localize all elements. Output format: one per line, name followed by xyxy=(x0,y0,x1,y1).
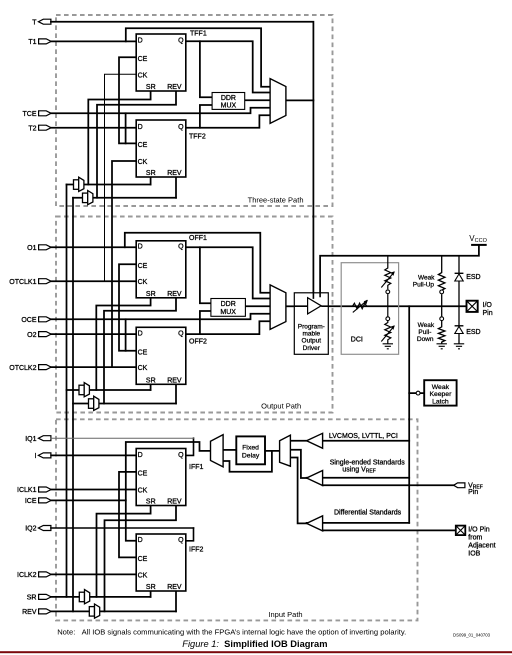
svg-text:Three-state Path: Three-state Path xyxy=(248,195,304,204)
pad ICLK1 xyxy=(39,487,52,492)
wire pad net vertical to input buffers xyxy=(408,306,410,523)
wire TCE bus to TFF1 CE and TFF2 CE xyxy=(119,57,136,143)
svg-text:Pull-: Pull- xyxy=(418,329,431,336)
wire OFF1 SR xyxy=(96,298,150,390)
wire driver output to I/O pin xyxy=(328,305,466,307)
wire OFF2 REV xyxy=(175,384,177,403)
svg-text:Q: Q xyxy=(178,124,184,131)
VREF pad xyxy=(454,483,465,488)
wire VREF buffer output to input mux2 xyxy=(290,450,306,478)
wire REV distribution output path xyxy=(73,403,176,405)
svg-text:D: D xyxy=(138,537,143,544)
ground DCI xyxy=(383,344,393,349)
wire differential buffer output to input mux2 xyxy=(290,458,306,524)
wire SR global bus xyxy=(66,185,68,597)
weak keeper latch xyxy=(416,380,456,405)
wire IFF1 SR xyxy=(97,506,151,597)
svg-text:REV: REV xyxy=(167,291,182,298)
svg-text:ICE: ICE xyxy=(25,498,37,505)
wire T to output driver three-state control xyxy=(51,22,314,293)
fixed delay box xyxy=(236,436,265,464)
svg-text:Latch: Latch xyxy=(432,398,449,405)
pin labels OFF1 xyxy=(138,244,185,298)
wire input mux2 out to fixed delay xyxy=(265,450,280,452)
svg-text:CK: CK xyxy=(138,572,148,579)
svg-text:OFF1: OFF1 xyxy=(189,235,207,242)
svg-text:ICLK2: ICLK2 xyxy=(17,572,37,579)
svg-text:Note: All IOB signals commun: Note: All IOB signals communicating with… xyxy=(57,627,406,636)
wire TFF1 REV xyxy=(97,91,176,198)
svg-text:mable: mable xyxy=(302,330,320,337)
svg-text:CK: CK xyxy=(138,279,148,286)
input path dashed region xyxy=(56,419,418,620)
svg-text:Down: Down xyxy=(417,336,434,343)
wire OFF2 Q branch to DDR mux B xyxy=(200,311,211,334)
svg-text:CE: CE xyxy=(138,263,148,270)
wire ICLK1 to IFF1 CK xyxy=(51,489,136,491)
svg-text:D: D xyxy=(138,452,143,459)
wire TCE to three-state mux input 4 xyxy=(51,108,271,114)
svg-text:OFF2: OFF2 xyxy=(189,338,207,345)
wire DDR mux out to three-state mux input 3 xyxy=(245,99,271,101)
ESD diode bottom xyxy=(454,306,464,349)
svg-text:MUX: MUX xyxy=(220,309,236,316)
svg-text:MUX: MUX xyxy=(221,103,237,110)
wire OTCLK2 to OFF2 CK xyxy=(51,366,136,368)
svg-text:Output Path: Output Path xyxy=(261,401,301,410)
wire input mux1 output to I line and IFF2 D xyxy=(126,442,211,541)
svg-text:DCI: DCI xyxy=(351,337,363,344)
svg-text:TFF1: TFF1 xyxy=(190,30,207,37)
wire TCE drop to TFF2 CE line xyxy=(125,113,127,143)
svg-text:D: D xyxy=(138,38,143,45)
svg-text:OTCLK1: OTCLK1 xyxy=(9,279,36,286)
pad O1 xyxy=(39,245,52,250)
wire ICLK2 to IFF2 CK xyxy=(51,573,136,575)
svg-text:CK: CK xyxy=(138,365,148,372)
DCI pull-down element xyxy=(381,306,395,344)
svg-text:I/O Pin: I/O Pin xyxy=(468,527,490,534)
wire OFF1 REV xyxy=(104,298,176,404)
svg-text:DDR: DDR xyxy=(221,301,236,308)
svg-text:Adjacent: Adjacent xyxy=(468,543,495,550)
wire T2 to TFF2 D xyxy=(51,127,136,129)
svg-text:using VREF: using VREF xyxy=(342,466,375,474)
polarity mux pair output path xyxy=(79,385,84,395)
wire OFF2 SR xyxy=(150,384,152,390)
pad TCE xyxy=(39,111,52,116)
programmable output driver xyxy=(294,293,328,355)
DCI box xyxy=(341,256,398,355)
wire SR line input path xyxy=(51,596,151,598)
svg-text:O1: O1 xyxy=(27,245,36,252)
input mux 2 (left-pointing) xyxy=(280,435,291,466)
svg-text:REV: REV xyxy=(167,377,182,384)
flip-flop IFF1 xyxy=(136,449,186,506)
weak pull-down resistor xyxy=(437,306,447,349)
ground pull-down xyxy=(437,344,447,349)
input mux 1 (left-pointing) xyxy=(211,435,224,467)
pad IQ1 (out-arrow) xyxy=(38,436,51,441)
I/O pin from adjacent IOB symbol xyxy=(456,526,496,558)
svg-text:Pin: Pin xyxy=(468,489,478,496)
DCI pull-up element xyxy=(381,256,395,307)
svg-text:Q: Q xyxy=(178,38,184,45)
wire TFF1 Q branch to DDR mux A xyxy=(200,41,212,97)
flip-flop TFF1 xyxy=(136,34,186,91)
svg-text:Pin: Pin xyxy=(483,310,493,317)
svg-text:Single-ended Standards: Single-ended Standards xyxy=(330,460,406,467)
wire three-state mux output xyxy=(286,99,314,101)
input buffer LVCMOS xyxy=(307,433,323,448)
svg-text:Q: Q xyxy=(178,452,184,459)
svg-text:Q: Q xyxy=(178,331,184,338)
wire fixed delay bypass xyxy=(223,451,272,472)
wire TFF1 Q to three-state mux input 2 xyxy=(186,41,271,92)
svg-text:from: from xyxy=(468,535,482,542)
svg-text:Q: Q xyxy=(178,244,184,251)
svg-text:D: D xyxy=(138,331,143,338)
flip-flop OFF2 xyxy=(136,327,186,384)
wire TFF2 CK bus to OTCLK2 xyxy=(112,161,136,367)
pad OTCLK1 xyxy=(39,279,52,284)
wire T1 to TFF1 D xyxy=(51,40,136,42)
pad ICE xyxy=(39,498,52,503)
svg-text:CE: CE xyxy=(138,56,148,63)
svg-text:ICLK1: ICLK1 xyxy=(17,487,37,494)
svg-text:O2: O2 xyxy=(27,332,36,339)
svg-text:Q: Q xyxy=(178,537,184,544)
svg-text:DDR: DDR xyxy=(221,95,236,102)
DDR MUX box (three-state) xyxy=(212,93,245,110)
pin labels OFF2 xyxy=(138,331,185,385)
pin labels IFF2 xyxy=(138,537,185,591)
three-state mux xyxy=(270,79,286,124)
svg-text:IFF2: IFF2 xyxy=(189,546,203,553)
wire IFF2 Q to IQ2 xyxy=(186,528,194,541)
svg-text:Weak: Weak xyxy=(418,274,435,281)
flip-flop name labels xyxy=(189,30,207,553)
wire IFF2 REV xyxy=(175,591,177,611)
svg-text:REV: REV xyxy=(167,170,182,177)
wire I line to IFF1 D xyxy=(51,454,136,456)
wire TFF2 SR xyxy=(150,177,152,185)
wire TFF1 SR xyxy=(88,91,150,185)
svg-text:CK: CK xyxy=(138,72,148,79)
input buffer VREF xyxy=(307,471,323,486)
ground ESD xyxy=(454,344,464,349)
svg-text:SR: SR xyxy=(27,595,37,602)
wire OTCLK1 to OFF1 CK xyxy=(51,280,136,282)
bottom rule xyxy=(0,651,512,653)
svg-text:Input Path: Input Path xyxy=(268,610,302,619)
pin labels TFF1 (D Q CE CK SR REV) xyxy=(138,38,185,91)
wire OCE bus to OFF1 CE and OFF2 CE xyxy=(119,264,136,351)
pad I (out-arrow) xyxy=(38,453,51,458)
svg-text:SR: SR xyxy=(146,84,156,91)
wire REV distribution three-state xyxy=(73,197,176,199)
wire REV global bus xyxy=(72,198,74,612)
pad ICLK2 xyxy=(39,572,52,577)
pad SR xyxy=(39,594,52,599)
flip-flop IFF2 xyxy=(136,534,186,591)
pad T1 xyxy=(39,39,52,44)
svg-text:CK: CK xyxy=(138,159,148,166)
svg-text:OCE: OCE xyxy=(21,317,37,324)
svg-text:Weak: Weak xyxy=(432,384,450,391)
wire TFF2 REV xyxy=(175,177,177,198)
svg-text:CE: CE xyxy=(138,349,148,356)
flip-flop TFF2 xyxy=(136,120,186,177)
wire TFF2 Q branch to DDR mux B xyxy=(200,105,212,128)
pad IQ2 (out-arrow) xyxy=(38,526,51,531)
pin labels IFF1 xyxy=(138,452,185,506)
svg-text:Weak: Weak xyxy=(418,322,435,329)
pin labels TFF2 xyxy=(138,124,185,177)
three-state path dashed region xyxy=(56,15,418,620)
pad T (out-arrow) xyxy=(38,19,51,24)
pad OTCLK2 xyxy=(39,365,52,370)
wire ICE bus to IFF1 CE and IFF2 CE xyxy=(119,472,136,558)
svg-text:I/O: I/O xyxy=(483,302,493,309)
wire O1 to OFF1 D xyxy=(51,246,136,248)
wire to weak keeper latch xyxy=(409,392,424,394)
pad T2 xyxy=(39,125,52,130)
wire SR distribution three-state xyxy=(67,184,151,186)
svg-text:T1: T1 xyxy=(28,39,36,46)
wire TFF2 Q to three-state mux input 5 xyxy=(186,115,271,127)
svg-text:REV: REV xyxy=(167,84,182,91)
wire REV line input path xyxy=(51,610,176,612)
wire OCE drop to OFF2 CE line xyxy=(125,319,127,351)
svg-text:CK: CK xyxy=(138,488,148,495)
svg-text:Fixed: Fixed xyxy=(242,445,259,452)
svg-text:Driver: Driver xyxy=(303,345,321,352)
svg-text:CE: CE xyxy=(138,471,148,478)
wire DDR mux out to output mux input 3 xyxy=(245,305,270,307)
wire LVCMOS buffer input xyxy=(290,440,409,442)
wire ICE to IFF CE bus xyxy=(51,499,126,501)
wire OFF2 Q to output mux input 5 xyxy=(186,321,271,334)
svg-text:Output: Output xyxy=(302,338,322,345)
DDR MUX box (output) xyxy=(211,299,246,317)
wire TFF1 CK bus to OTCLK1 xyxy=(105,74,137,281)
pad OCE xyxy=(39,317,52,322)
wire T1 bypass to three-state mux input 1 xyxy=(126,28,271,87)
wire O1 bypass to output mux input 1 xyxy=(125,233,271,293)
svg-text:D: D xyxy=(138,244,143,251)
svg-text:SR: SR xyxy=(146,499,156,506)
output path dashed region xyxy=(56,217,333,413)
left column labels xyxy=(9,19,37,616)
svg-text:REV: REV xyxy=(167,499,182,506)
svg-text:T: T xyxy=(32,19,37,26)
svg-text:SR: SR xyxy=(146,584,156,591)
svg-text:I: I xyxy=(35,453,37,460)
svg-text:LVCMOS, LVTTL, PCI: LVCMOS, LVTTL, PCI xyxy=(329,433,398,440)
wire OFF1 Q to output mux input 2 xyxy=(186,247,271,298)
wire IFF2 SR xyxy=(150,591,152,597)
left column pads xyxy=(38,19,51,614)
wire Vcco rail xyxy=(320,245,479,293)
svg-text:ESD: ESD xyxy=(466,329,480,336)
flip-flop boxes xyxy=(136,34,186,591)
wire OCE to output mux input 4 xyxy=(51,314,271,320)
wire fixed delay out to input mux1 xyxy=(223,449,236,451)
I/O pin symbol xyxy=(467,301,493,317)
pad O2 xyxy=(39,332,52,337)
svg-text:SR: SR xyxy=(146,170,156,177)
svg-text:Keeper: Keeper xyxy=(429,391,452,398)
svg-text:ESD: ESD xyxy=(466,274,480,281)
ESD diode top xyxy=(455,256,464,307)
svg-text:CE: CE xyxy=(138,556,148,563)
output mux xyxy=(270,285,286,330)
wire differential buffer input xyxy=(307,523,456,531)
svg-text:Differential Standards: Differential Standards xyxy=(334,510,402,517)
polarity mux pair input path xyxy=(79,592,84,602)
svg-text:Delay: Delay xyxy=(242,453,260,460)
svg-text:IQ2: IQ2 xyxy=(25,526,36,533)
svg-text:Pull-Up: Pull-Up xyxy=(413,281,435,288)
wire SR distribution output path xyxy=(67,389,151,391)
weak pull-up resistor xyxy=(438,256,445,307)
polarity mux SR three-state xyxy=(74,177,100,618)
svg-text:DS099_01_040703: DS099_01_040703 xyxy=(453,633,491,638)
svg-text:SR: SR xyxy=(146,291,156,298)
wire OFF1 Q branch to DDR mux A xyxy=(200,247,211,303)
input buffer differential xyxy=(307,516,323,531)
flip-flop OFF1 xyxy=(136,241,186,298)
svg-text:SR: SR xyxy=(146,377,156,384)
svg-text:D: D xyxy=(138,124,143,131)
DCI series resistor on pad line xyxy=(353,300,368,313)
svg-text:Figure 1: Simplified IOB Diag: Figure 1: Simplified IOB Diagram xyxy=(182,639,327,649)
wire IFF1 Q to IQ1 xyxy=(186,438,194,455)
wire VREF buffer input xyxy=(307,478,456,486)
wire O2 to OFF2 D xyxy=(51,333,136,335)
svg-text:CE: CE xyxy=(138,142,148,149)
svg-text:IFF1: IFF1 xyxy=(189,464,203,471)
svg-text:TCE: TCE xyxy=(23,111,37,118)
flip-flop pin labels xyxy=(138,38,185,591)
svg-text:TFF2: TFF2 xyxy=(189,134,206,141)
svg-text:IOB: IOB xyxy=(468,551,480,558)
pad REV xyxy=(39,609,52,614)
svg-text:REV: REV xyxy=(22,609,37,616)
svg-text:IQ1: IQ1 xyxy=(25,436,36,443)
wire IFF1 REV xyxy=(105,506,177,612)
svg-text:OTCLK2: OTCLK2 xyxy=(9,365,36,372)
thin wires xyxy=(51,74,194,541)
svg-text:REV: REV xyxy=(167,584,182,591)
wire output mux output to driver xyxy=(286,305,294,307)
svg-text:T2: T2 xyxy=(28,125,36,132)
